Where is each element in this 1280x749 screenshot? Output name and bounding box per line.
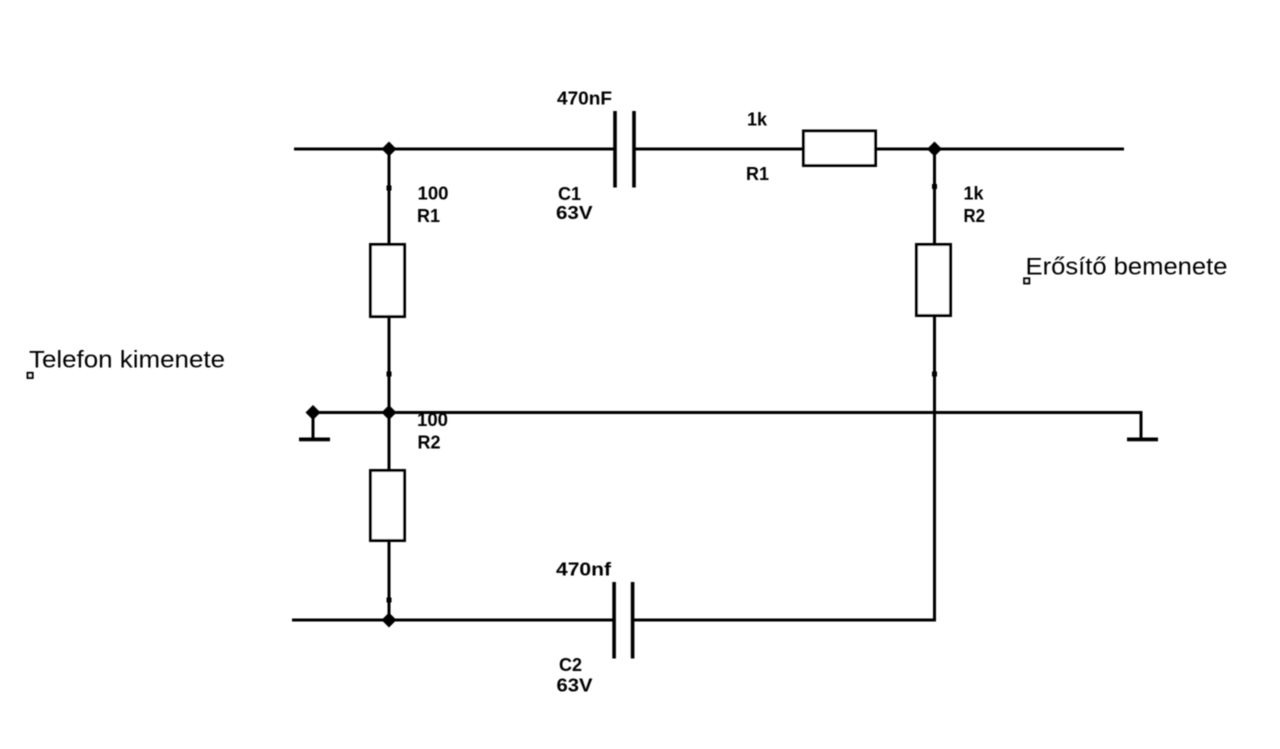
junction dot middle node (382, 405, 397, 420)
resistor R1 100 vertical left upper (371, 245, 405, 317)
resistor R1 1k horizontal (804, 131, 876, 166)
svg-text:R2: R2 (418, 433, 441, 453)
junction dot bottom node (382, 613, 397, 628)
wire bottom-left segment (292, 619, 613, 622)
resistor R2 1k vertical right (917, 245, 951, 316)
svg-text:C1: C1 (558, 184, 581, 204)
wire top-right segment (634, 148, 1124, 151)
ground right stub (1140, 411, 1143, 438)
svg-text:100: 100 (418, 184, 449, 204)
ground left stub (312, 412, 315, 438)
resistor R2 100 vertical left lower (371, 471, 405, 541)
pin marker R1 100 top pin (387, 186, 392, 191)
pin marker R2 1k bottom pin (932, 372, 937, 377)
svg-text:63V: 63V (557, 676, 593, 696)
svg-text:Erősítő bemenete: Erősítő bemenete (1026, 254, 1228, 281)
capacitor C1 left plate (613, 111, 617, 188)
ground right bar (1127, 438, 1158, 442)
svg-text:470nF: 470nF (557, 89, 612, 109)
capacitor C2 right plate (631, 582, 635, 659)
svg-text:R2: R2 (964, 206, 986, 226)
svg-text:1k: 1k (964, 184, 985, 204)
wire left vertical (388, 149, 391, 620)
ground left bar (299, 438, 330, 442)
svg-text:Telefon kimenete: Telefon kimenete (29, 347, 225, 374)
svg-text:C2: C2 (559, 655, 582, 675)
wire bottom-right segment (633, 619, 937, 622)
svg-text:1k: 1k (747, 110, 768, 130)
wire right vertical (933, 149, 936, 620)
wire middle horizontal (313, 411, 1141, 414)
svg-text:R1: R1 (746, 164, 769, 184)
port marker Telefon square (28, 373, 33, 378)
junction dot left ground node (306, 405, 321, 420)
capacitor C2 left plate (612, 582, 616, 659)
svg-text:470nf: 470nf (556, 560, 612, 580)
pin marker R1 100 bottom pin (387, 372, 392, 377)
wire top-left segment (294, 148, 614, 151)
pin marker R2 100 bottom pin (387, 598, 392, 603)
pin marker R2 1k top pin (932, 184, 937, 189)
svg-text:100: 100 (417, 410, 448, 430)
port marker Erosito square (1024, 278, 1029, 283)
capacitor C1 right plate (632, 111, 636, 188)
svg-text:R1: R1 (417, 206, 440, 226)
svg-text:63V: 63V (556, 203, 593, 223)
junction dot top-left node (382, 142, 397, 157)
junction dot top-right node (927, 142, 942, 157)
